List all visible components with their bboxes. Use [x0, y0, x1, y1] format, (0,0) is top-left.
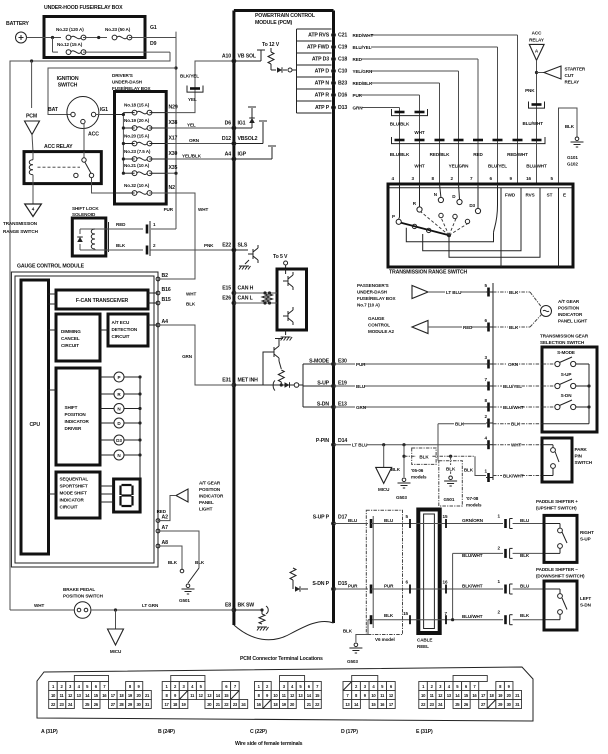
svg-text:ATP D3: ATP D3: [312, 57, 329, 63]
svg-text:CUT: CUT: [565, 73, 574, 78]
svg-text:BLK: BLK: [446, 467, 456, 472]
svg-text:PADDLE SHIFTER +: PADDLE SHIFTER +: [536, 499, 578, 504]
svg-text:No.12 (15 A): No.12 (15 A): [57, 42, 83, 47]
svg-text:INDICATOR: INDICATOR: [199, 494, 224, 499]
svg-text:C18: C18: [338, 57, 347, 63]
svg-text:VBSOL2: VBSOL2: [238, 136, 258, 142]
svg-text:YEL/BLK: YEL/BLK: [182, 154, 202, 159]
svg-text:GAUGE CONTROL MODULE: GAUGE CONTROL MODULE: [17, 264, 85, 270]
svg-text:MODULE A2: MODULE A2: [368, 329, 395, 334]
svg-text:BLK: BLK: [455, 422, 465, 427]
svg-text:G503: G503: [396, 495, 407, 500]
svg-text:UNDER-HOOD FUSE/RELAY BOX: UNDER-HOOD FUSE/RELAY BOX: [44, 5, 123, 11]
svg-text:RED: RED: [157, 509, 167, 514]
svg-text:TRANSMISSION RANGE SWITCH: TRANSMISSION RANGE SWITCH: [389, 270, 468, 276]
svg-text:PCM Connector Terminal Locatio: PCM Connector Terminal Locations: [240, 656, 323, 662]
svg-text:BLK: BLK: [511, 422, 521, 427]
svg-text:CONTROL: CONTROL: [368, 323, 390, 328]
svg-text:YEL: YEL: [188, 97, 197, 102]
svg-text:PUR: PUR: [356, 362, 366, 367]
svg-text:SELECTION SWITCH: SELECTION SWITCH: [540, 340, 585, 345]
svg-text:SHIFT: SHIFT: [65, 405, 78, 410]
svg-text:ACC: ACC: [532, 31, 542, 36]
svg-text:E22: E22: [222, 243, 231, 249]
svg-text:models: models: [411, 475, 427, 480]
svg-text:To 12 V: To 12 V: [262, 42, 280, 48]
svg-text:WHT: WHT: [511, 443, 521, 448]
svg-text:To 5 V: To 5 V: [273, 254, 288, 260]
svg-text:E8: E8: [225, 603, 231, 609]
svg-text:E: E: [563, 193, 566, 198]
svg-text:BLU/WHT: BLU/WHT: [462, 553, 483, 558]
svg-text:FUSE/RELAY BOX: FUSE/RELAY BOX: [357, 296, 396, 301]
svg-text:D3: D3: [469, 203, 475, 208]
svg-text:C10: C10: [338, 69, 347, 75]
svg-text:BLK: BLK: [384, 613, 394, 618]
svg-text:D3: D3: [116, 438, 122, 443]
svg-text:S-DN: S-DN: [561, 393, 573, 398]
svg-text:S-UP P: S-UP P: [313, 515, 330, 521]
svg-text:F-CAN TRANSCEIVER: F-CAN TRANSCEIVER: [76, 298, 129, 304]
svg-text:S-UP: S-UP: [317, 381, 329, 387]
svg-text:DETECTION: DETECTION: [112, 327, 138, 332]
svg-text:MODE SHIFT: MODE SHIFT: [60, 491, 88, 496]
svg-text:RVS: RVS: [525, 193, 534, 198]
svg-text:GAUGE: GAUGE: [368, 316, 384, 321]
svg-text:E26: E26: [222, 296, 231, 302]
svg-text:CAN H: CAN H: [238, 286, 254, 292]
svg-text:A4: A4: [162, 319, 169, 325]
svg-text:FWD: FWD: [505, 193, 516, 198]
svg-text:CPU: CPU: [29, 422, 40, 428]
svg-text:'07-08: '07-08: [466, 496, 479, 501]
svg-text:MODULE (PCM): MODULE (PCM): [255, 20, 293, 26]
svg-text:No.23 (7.5 A): No.23 (7.5 A): [124, 149, 151, 154]
svg-text:INDICATOR: INDICATOR: [558, 312, 583, 317]
svg-text:PANEL: PANEL: [199, 500, 214, 505]
svg-text:RELAY: RELAY: [565, 80, 580, 85]
svg-text:16: 16: [526, 176, 531, 181]
svg-text:S-MODE: S-MODE: [309, 359, 330, 365]
svg-text:UNDER-DASH: UNDER-DASH: [112, 80, 143, 85]
svg-text:D17: D17: [338, 515, 347, 521]
svg-text:D15: D15: [338, 581, 347, 587]
svg-text:DRIVER'S: DRIVER'S: [112, 73, 133, 78]
svg-text:N29: N29: [169, 105, 178, 111]
svg-text:PIN: PIN: [575, 454, 583, 459]
svg-text:G501: G501: [179, 598, 190, 603]
svg-text:S-DN: S-DN: [580, 603, 592, 608]
svg-text:BLU/YEL: BLU/YEL: [503, 384, 522, 389]
svg-text:BLK: BLK: [509, 325, 519, 330]
svg-text:PUR: PUR: [164, 207, 174, 212]
svg-text:D14: D14: [338, 438, 347, 444]
svg-text:IGNITION: IGNITION: [57, 76, 79, 82]
svg-text:A10: A10: [222, 54, 231, 60]
svg-text:BLK: BLK: [509, 290, 519, 295]
svg-text:POSITION: POSITION: [65, 412, 87, 417]
svg-text:CIRCUIT: CIRCUIT: [112, 334, 130, 339]
svg-text:15: 15: [443, 514, 448, 519]
svg-text:POSITION: POSITION: [558, 306, 580, 311]
svg-text:SOLENOID: SOLENOID: [72, 212, 96, 217]
svg-text:GRN/ORN: GRN/ORN: [462, 518, 484, 523]
svg-text:PARK: PARK: [575, 447, 588, 452]
svg-text:BLU: BLU: [348, 518, 358, 523]
svg-text:BLU/WHT: BLU/WHT: [523, 121, 544, 126]
svg-text:GRN: GRN: [356, 405, 367, 410]
svg-text:BLK: BLK: [520, 553, 530, 558]
svg-text:D9: D9: [150, 41, 157, 47]
svg-text:WHT: WHT: [186, 291, 196, 296]
svg-text:BLK: BLK: [168, 560, 178, 565]
svg-text:PASSENGER'S: PASSENGER'S: [357, 283, 389, 288]
svg-text:BLU/WHT: BLU/WHT: [503, 405, 524, 410]
svg-text:IG1: IG1: [238, 121, 246, 127]
svg-text:A8: A8: [162, 540, 169, 546]
svg-text:UNDER-DASH: UNDER-DASH: [357, 290, 388, 295]
svg-text:(UPSHIFT SWITCH): (UPSHIFT SWITCH): [536, 506, 577, 511]
svg-text:E15: E15: [222, 286, 231, 292]
svg-text:BLK/YEL: BLK/YEL: [180, 74, 199, 79]
svg-text:BLK: BLK: [565, 124, 575, 129]
svg-text:A/T GEAR: A/T GEAR: [199, 481, 221, 486]
svg-text:PUR: PUR: [353, 93, 363, 98]
svg-text:IGP: IGP: [238, 152, 247, 158]
svg-text:BLK: BLK: [116, 243, 126, 248]
svg-text:A/T GEAR: A/T GEAR: [558, 299, 580, 304]
svg-text:SWITCH: SWITCH: [575, 460, 593, 465]
svg-text:SLS: SLS: [238, 243, 248, 249]
svg-text:LT BLU: LT BLU: [446, 290, 462, 295]
svg-text:S-UP: S-UP: [561, 372, 572, 377]
svg-text:BLU: BLU: [356, 384, 366, 389]
svg-text:BLU/BLK: BLU/BLK: [390, 122, 410, 127]
svg-text:C21: C21: [338, 33, 347, 39]
svg-text:LT GRN: LT GRN: [142, 603, 159, 608]
svg-text:D12: D12: [222, 136, 231, 142]
svg-text:No.23 (50 A): No.23 (50 A): [105, 27, 131, 32]
svg-text:BLK: BLK: [343, 629, 353, 634]
svg-text:BLU: BLU: [384, 518, 394, 523]
svg-text:BLU/WHT: BLU/WHT: [462, 614, 483, 619]
svg-text:PUR: PUR: [384, 583, 394, 588]
svg-text:A7: A7: [162, 525, 169, 531]
svg-text:GRN: GRN: [182, 354, 193, 359]
svg-text:CIRCUIT: CIRCUIT: [60, 505, 78, 510]
svg-text:SPORTSHIFT: SPORTSHIFT: [60, 484, 88, 489]
svg-text:MICU: MICU: [378, 487, 390, 492]
svg-text:G501: G501: [444, 497, 455, 502]
svg-text:IG1: IG1: [100, 107, 108, 113]
svg-text:CAN L: CAN L: [238, 296, 254, 302]
svg-text:ORN: ORN: [508, 362, 519, 367]
svg-text:PANEL LIGHT: PANEL LIGHT: [558, 319, 587, 324]
svg-text:BLK: BLK: [195, 560, 205, 565]
svg-text:V6 model: V6 model: [375, 637, 395, 642]
svg-text:'05-06: '05-06: [411, 468, 424, 473]
svg-text:RED/WHT: RED/WHT: [507, 152, 528, 157]
svg-text:CABLE: CABLE: [417, 638, 432, 643]
svg-text:No.22 (120 A): No.22 (120 A): [56, 27, 84, 32]
svg-text:ATP P: ATP P: [315, 105, 330, 111]
svg-text:INDICATOR: INDICATOR: [60, 498, 85, 503]
svg-text:LIGHT: LIGHT: [199, 507, 213, 512]
svg-text:(DOWNSHIFT SWITCH): (DOWNSHIFT SWITCH): [536, 574, 585, 579]
svg-text:RED/BLK: RED/BLK: [430, 152, 450, 157]
svg-text:S-MODE: S-MODE: [557, 350, 575, 355]
svg-text:S-UP: S-UP: [580, 537, 591, 542]
svg-text:16: 16: [443, 580, 448, 585]
svg-text:No.32 (10 A): No.32 (10 A): [124, 183, 150, 188]
svg-text:No.20 (15 A): No.20 (15 A): [124, 134, 150, 139]
svg-text:BLK: BLK: [419, 455, 429, 460]
svg-text:PNK: PNK: [525, 88, 535, 93]
svg-text:BATTERY: BATTERY: [6, 21, 30, 27]
svg-text:ATP N: ATP N: [315, 81, 330, 87]
svg-text:BK SW: BK SW: [238, 603, 255, 609]
svg-text:B15: B15: [162, 297, 171, 303]
svg-text:SHIFT LOCK: SHIFT LOCK: [72, 206, 99, 211]
svg-text:TRANSMISSION: TRANSMISSION: [3, 221, 38, 226]
svg-text:A4: A4: [225, 152, 232, 158]
svg-text:No.21 (10 A): No.21 (10 A): [124, 163, 150, 168]
svg-text:RED: RED: [463, 325, 473, 330]
svg-text:ORN: ORN: [189, 138, 200, 143]
svg-text:YEL: YEL: [187, 123, 196, 128]
svg-text:X38: X38: [169, 120, 178, 126]
svg-text:BLU: BLU: [520, 518, 530, 523]
svg-text:S-DN P: S-DN P: [312, 581, 329, 587]
svg-text:BLK: BLK: [464, 468, 474, 473]
svg-text:POSITION: POSITION: [199, 487, 221, 492]
svg-text:RIGHT: RIGHT: [580, 530, 594, 535]
svg-text:ATP FWD: ATP FWD: [307, 45, 330, 51]
svg-text:PCM: PCM: [26, 114, 37, 120]
svg-text:CANCEL: CANCEL: [61, 336, 80, 341]
svg-text:X30: X30: [169, 151, 178, 157]
svg-text:BLK: BLK: [391, 467, 401, 472]
svg-text:RED/BLK: RED/BLK: [353, 81, 373, 86]
svg-text:G503: G503: [347, 659, 358, 664]
svg-text:No.19 (20 A): No.19 (20 A): [124, 118, 150, 123]
svg-text:RED: RED: [353, 57, 363, 62]
svg-text:P: P: [392, 214, 395, 219]
svg-text:SEQUENTIAL: SEQUENTIAL: [60, 477, 89, 482]
svg-text:E31: E31: [222, 378, 231, 384]
svg-text:X35: X35: [169, 165, 178, 171]
svg-text:S-DN: S-DN: [317, 402, 329, 408]
svg-text:BLU/YEL: BLU/YEL: [353, 45, 372, 50]
svg-text:POSITION SWITCH: POSITION SWITCH: [63, 594, 104, 599]
svg-text:X17: X17: [169, 136, 178, 142]
svg-text:RED: RED: [473, 152, 483, 157]
svg-text:BLK: BLK: [186, 302, 196, 307]
svg-text:ACC RELAY: ACC RELAY: [44, 144, 73, 150]
svg-text:A/T ECU: A/T ECU: [112, 320, 130, 325]
svg-text:POWERTRAIN CONTROL: POWERTRAIN CONTROL: [255, 13, 316, 19]
svg-text:G1: G1: [150, 25, 157, 31]
svg-text:BLK/WHT: BLK/WHT: [462, 583, 483, 588]
svg-text:RED/WHT: RED/WHT: [353, 33, 374, 38]
svg-text:No.7 (10 A): No.7 (10 A): [357, 303, 380, 308]
svg-text:BAT: BAT: [48, 107, 59, 113]
svg-text:C19: C19: [338, 45, 347, 51]
svg-text:YEL/GRN: YEL/GRN: [449, 164, 470, 169]
svg-text:LEFT: LEFT: [580, 596, 591, 601]
svg-text:SWITCH: SWITCH: [58, 83, 78, 89]
svg-text:WHT: WHT: [414, 164, 424, 169]
svg-text:GRN: GRN: [353, 106, 364, 111]
svg-text:PADDLE SHIFTER −: PADDLE SHIFTER −: [536, 567, 578, 572]
svg-text:B (24P): B (24P): [158, 729, 175, 735]
svg-text:BLU/YEL: BLU/YEL: [488, 164, 507, 169]
svg-text:D16: D16: [338, 93, 347, 99]
svg-text:E (31P): E (31P): [416, 729, 433, 735]
svg-text:BLU/BLK: BLU/BLK: [390, 152, 410, 157]
svg-text:C (22P): C (22P): [250, 729, 267, 735]
svg-text:ACC: ACC: [88, 132, 99, 138]
svg-text:ATP RVS: ATP RVS: [308, 33, 330, 39]
svg-text:B16: B16: [162, 287, 171, 293]
svg-text:ST: ST: [547, 193, 553, 198]
svg-text:MET INH: MET INH: [238, 378, 259, 384]
svg-text:No.18 (15 A): No.18 (15 A): [124, 103, 150, 108]
svg-text:D13: D13: [338, 105, 347, 111]
svg-text:BRAKE PEDAL: BRAKE PEDAL: [63, 587, 95, 592]
svg-text:B23: B23: [338, 81, 347, 87]
svg-text:YEL/GRN: YEL/GRN: [353, 69, 374, 74]
svg-text:D6: D6: [225, 121, 232, 127]
svg-text:G102: G102: [567, 162, 578, 167]
svg-text:15: 15: [403, 611, 408, 616]
svg-text:A2: A2: [162, 515, 169, 521]
svg-text:PNK: PNK: [204, 243, 214, 248]
svg-text:VB SOL: VB SOL: [238, 54, 257, 60]
svg-text:RED: RED: [116, 222, 126, 227]
svg-text:BLK/WHT: BLK/WHT: [503, 473, 524, 478]
svg-text:B2: B2: [162, 273, 169, 279]
svg-text:CIRCUIT: CIRCUIT: [61, 343, 79, 348]
svg-text:REEL: REEL: [417, 644, 429, 649]
svg-text:STARTER: STARTER: [565, 67, 586, 72]
svg-text:PUR: PUR: [348, 583, 358, 588]
svg-text:models: models: [466, 503, 482, 508]
svg-text:DIMMING: DIMMING: [61, 329, 81, 334]
svg-text:WHT: WHT: [34, 603, 44, 608]
svg-text:WHT: WHT: [414, 130, 424, 135]
svg-text:LT BLU: LT BLU: [352, 443, 368, 448]
svg-text:DRIVER: DRIVER: [65, 426, 83, 431]
svg-text:INDICATOR: INDICATOR: [65, 419, 90, 424]
svg-text:MICU: MICU: [110, 649, 122, 654]
svg-text:Wire side of female terminals: Wire side of female terminals: [235, 741, 303, 747]
svg-text:WHT: WHT: [198, 207, 208, 212]
svg-text:BLU: BLU: [520, 583, 530, 588]
svg-text:G101: G101: [567, 155, 578, 160]
svg-text:TRANSMISSION GEAR: TRANSMISSION GEAR: [540, 334, 589, 339]
svg-text:P: P: [118, 375, 121, 380]
svg-text:A (31P): A (31P): [41, 729, 58, 735]
svg-text:P-PIN: P-PIN: [316, 438, 329, 444]
svg-text:RANGE SWITCH: RANGE SWITCH: [3, 229, 39, 234]
svg-text:BLK: BLK: [520, 613, 530, 618]
svg-text:ATP R: ATP R: [315, 93, 330, 99]
svg-text:RELAY: RELAY: [529, 38, 544, 43]
svg-text:N2: N2: [169, 185, 176, 191]
svg-text:ATP D: ATP D: [315, 69, 330, 75]
svg-text:D (17P): D (17P): [341, 729, 358, 735]
